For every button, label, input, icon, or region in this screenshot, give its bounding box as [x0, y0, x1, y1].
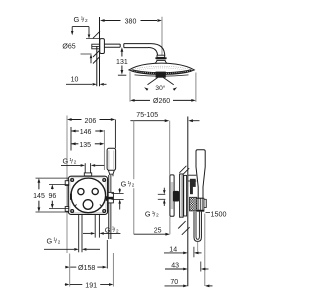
- svg-text:2: 2: [156, 213, 159, 218]
- svg-text:146: 146: [80, 129, 92, 136]
- svg-text:1500: 1500: [211, 209, 227, 218]
- svg-text:206: 206: [85, 118, 97, 125]
- svg-text:43: 43: [171, 262, 179, 269]
- svg-text:135: 135: [79, 142, 91, 149]
- svg-text:25: 25: [154, 227, 162, 234]
- svg-text:2: 2: [74, 160, 77, 165]
- svg-text:2: 2: [58, 239, 61, 244]
- svg-text:G: G: [63, 157, 69, 166]
- svg-text:14: 14: [169, 246, 177, 253]
- svg-text:96: 96: [49, 193, 57, 200]
- svg-text:191: 191: [85, 281, 97, 289]
- svg-text:131: 131: [116, 59, 128, 66]
- svg-text:Ø260: Ø260: [153, 98, 170, 105]
- svg-text:2: 2: [132, 183, 135, 188]
- svg-text:G: G: [74, 15, 80, 24]
- svg-text:2: 2: [116, 228, 119, 233]
- svg-text:G: G: [47, 236, 53, 245]
- svg-text:30°: 30°: [155, 84, 165, 92]
- svg-text:Ø65: Ø65: [62, 43, 75, 50]
- svg-text:380: 380: [125, 18, 137, 25]
- svg-text:G: G: [145, 210, 151, 219]
- svg-text:G: G: [121, 180, 127, 189]
- svg-text:10: 10: [71, 76, 79, 83]
- svg-text:145: 145: [33, 193, 45, 200]
- svg-text:2: 2: [85, 18, 88, 24]
- svg-text:Ø158: Ø158: [78, 264, 95, 272]
- svg-text:70: 70: [170, 279, 178, 286]
- svg-text:75-105: 75-105: [136, 112, 158, 119]
